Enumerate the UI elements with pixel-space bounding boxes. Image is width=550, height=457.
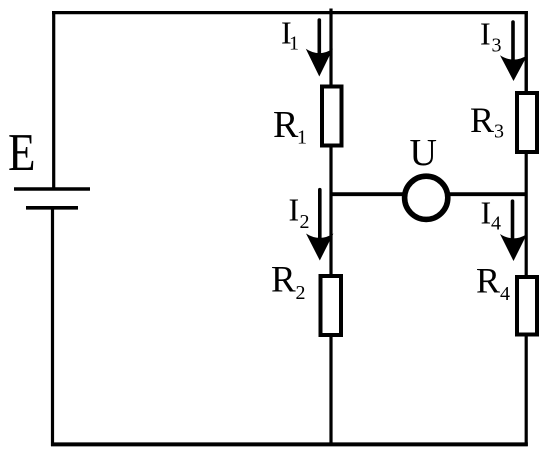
- svg-text:3: 3: [492, 34, 502, 56]
- svg-text:1: 1: [297, 126, 307, 148]
- svg-text:4: 4: [500, 283, 510, 305]
- svg-text:I: I: [481, 194, 492, 230]
- svg-text:R: R: [476, 261, 500, 301]
- svg-text:E: E: [8, 123, 36, 182]
- svg-text:I: I: [289, 192, 300, 228]
- svg-text:R: R: [470, 100, 494, 140]
- svg-text:R: R: [271, 260, 296, 301]
- svg-text:3: 3: [494, 121, 504, 143]
- svg-text:2: 2: [296, 282, 306, 304]
- svg-text:2: 2: [300, 211, 310, 233]
- svg-text:4: 4: [491, 213, 501, 235]
- svg-text:1: 1: [289, 32, 299, 54]
- svg-text:I: I: [480, 15, 491, 51]
- svg-text:U: U: [410, 132, 437, 174]
- svg-text:R: R: [273, 104, 299, 146]
